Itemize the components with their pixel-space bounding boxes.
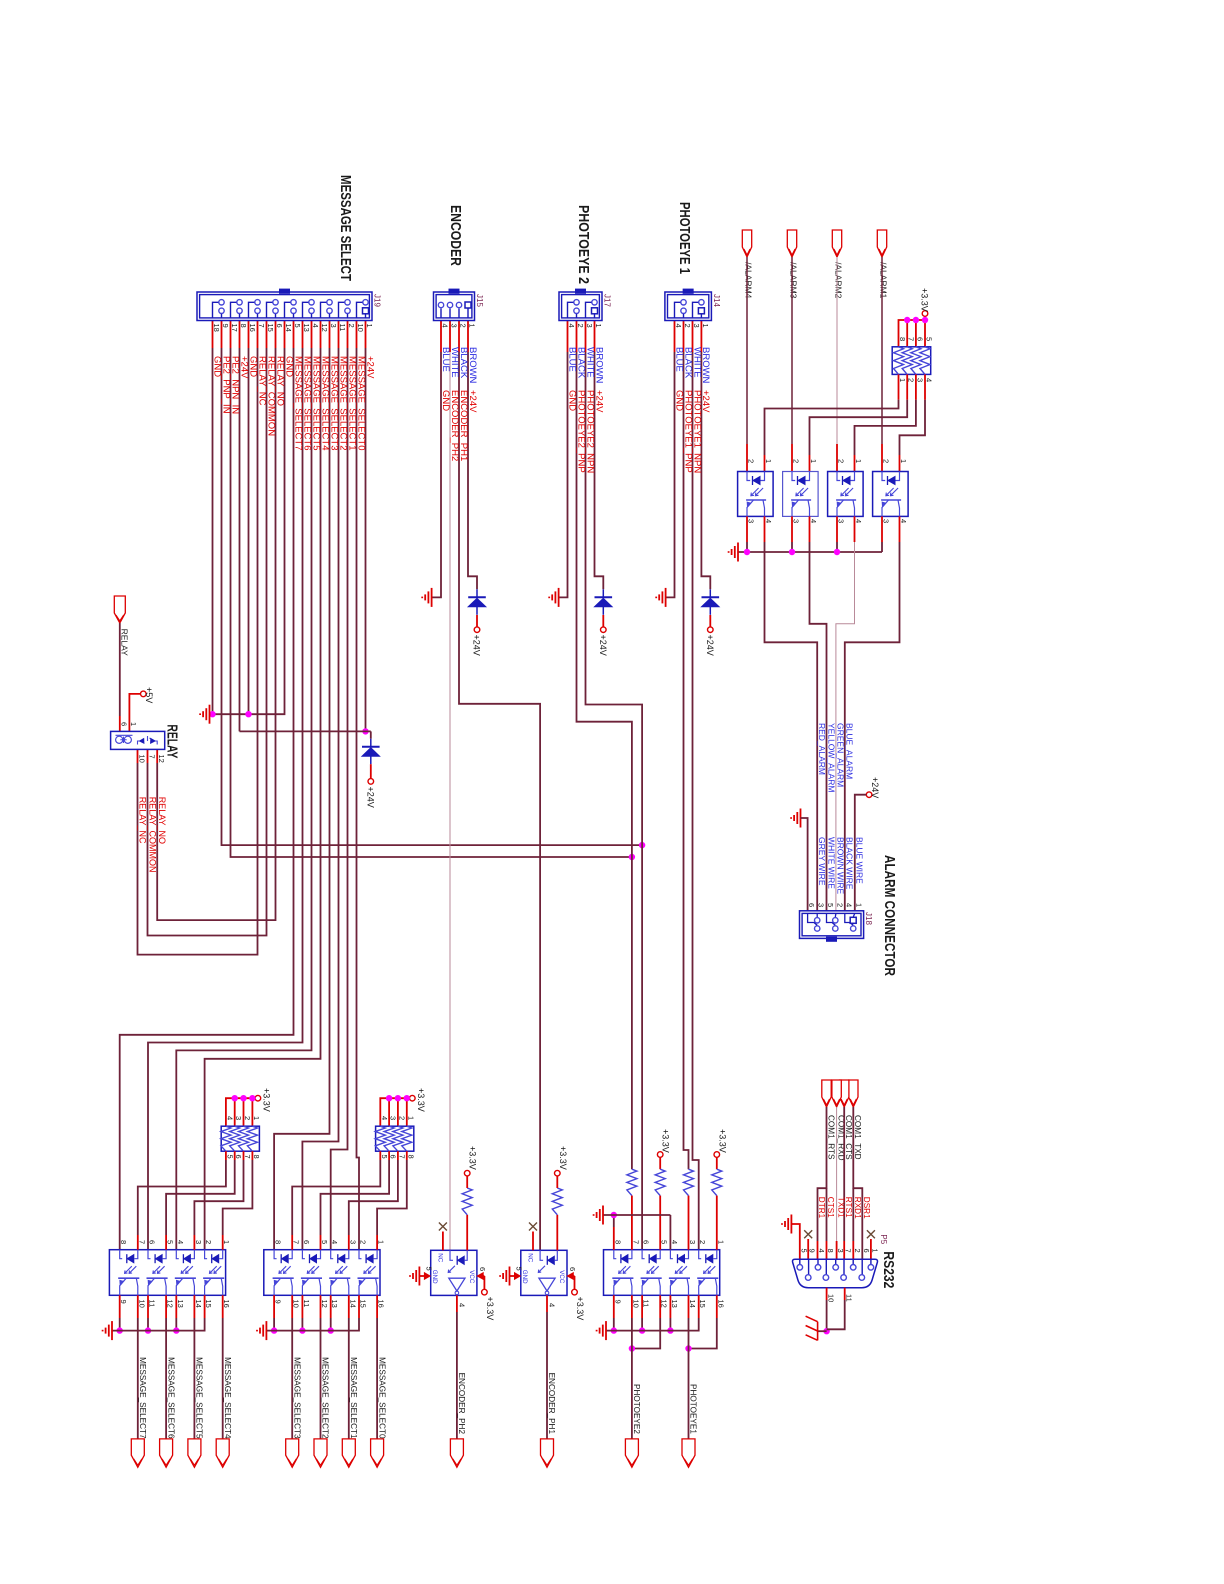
resistor RP_alarm element [902,347,912,375]
wire bank1 gnd stub [175,1295,177,1318]
svg-text:+24V: +24V [366,787,376,808]
flag COM1_RXD [832,1080,841,1107]
junction [249,1095,255,1101]
pin numbers J17 [567,324,603,328]
ground [597,1321,606,1340]
flag MESSAGE_SELECT0 [371,1439,384,1467]
wire MESSAGE_SELECT7 out b [137,1318,139,1439]
svg-text:RS232: RS232 [880,1251,897,1288]
flag PHOTOEYE2 [625,1439,638,1467]
svg-text:RELAY_NO: RELAY_NO [157,797,167,844]
svg-text:10: 10 [826,1294,835,1302]
pin numbers J15 [441,324,477,328]
pin numbers opto alarm 3 [837,459,864,523]
svg-text:15: 15 [266,324,275,332]
pin numbers relay [120,722,167,763]
svg-text:J15: J15 [475,294,484,307]
flag /ALARM4 [742,230,751,257]
svg-text:3: 3 [836,1249,845,1253]
wire +3.3V bus alarm [899,316,926,347]
wire P5 pin11 [844,1288,846,1300]
net labels J15 [440,390,478,461]
wire PHOTOEYE2_NPN [585,321,587,353]
svg-text:+3.3V: +3.3V [558,1146,568,1170]
wire MESSAGE_SELECT3 out b [291,1318,293,1439]
svg-text:BLUE: BLUE [566,347,577,372]
svg-text:2: 2 [853,1249,862,1253]
no-connect X [439,1223,447,1231]
wire MESSAGE_SELECT1 out b [348,1318,350,1439]
power terminal +24V [601,627,607,633]
pin numbers RP2 [380,1116,416,1159]
ground [656,588,665,607]
wire bank1 gnd stub [147,1295,149,1318]
connector J18 ALARM CONNECTOR [800,911,864,939]
ground [594,1206,603,1225]
flag MESSAGE_SELECT7 [131,1439,144,1467]
junction [789,549,795,555]
svg-text:4: 4 [311,324,320,328]
junction [116,1327,122,1333]
wire RELAY_COMMON [266,321,268,349]
power terminal +24V alarm [866,792,872,798]
resistor pack RP2 [376,1126,414,1151]
svg-text:4: 4 [441,324,450,328]
pin numbers bank U_msel_A [119,1240,231,1308]
svg-text:BLUE: BLUE [440,347,451,372]
wire RELAY_NO stub [156,749,158,763]
P5 pad 6 [861,1259,863,1274]
wire +24V J14 pin1 b [701,352,710,589]
ground [782,1215,791,1234]
wire PE2_PNP_IN [221,321,223,349]
wire RED_ALARM [764,516,766,542]
junction [685,1345,691,1351]
wire COM1_TXD w2 [852,1188,854,1241]
wire COM1_RTS w2 [826,1188,828,1241]
junction [639,842,645,848]
wire RP_alarm out [906,374,908,399]
wire +24V to J18 [855,795,867,911]
svg-text:6: 6 [275,324,284,328]
wire GND J17 pin4 [567,321,569,353]
power terminal +3.3V vcc U_enc1 [572,1289,578,1295]
resistor RP1 element [239,1126,249,1151]
wire MESSAGE_SELECT5 b [176,348,311,1250]
wire P5 pin10 b [826,1300,828,1331]
ground [549,588,558,607]
svg-text:P5: P5 [879,1234,888,1244]
wire bank3 pin16 out [716,1295,718,1318]
wire opto4 pin3 stub [881,516,883,542]
wire RP2 out stub [291,1235,293,1250]
flag COM1_TXD [849,1080,858,1107]
wire PHOTOEYE1_NPN [692,321,694,353]
wire U_enc1 pullup lead [556,1176,558,1188]
wire GND J19 pin16 [248,321,250,349]
svg-text:10: 10 [138,755,147,763]
svg-text:GND: GND [440,390,451,411]
svg-text:3: 3 [692,324,701,328]
wire /ALARM1 wire [881,257,883,444]
wire RP1 out stub [222,1235,224,1250]
wire bank3 gnd pin15 [698,1295,700,1318]
svg-text:2: 2 [243,1116,252,1120]
wire MESSAGE_SELECT0 b [357,348,360,1250]
pin numbers J18 [807,903,863,907]
svg-text:COM1_TXD: COM1_TXD [853,1115,862,1160]
chassis ground [806,1316,818,1340]
svg-text:+3.3V: +3.3V [261,1088,271,1112]
wire /ALARM2 wire [836,257,838,444]
J19 pin group 2/11 [345,300,350,305]
svg-text:8: 8 [826,1249,835,1253]
wire RP1 out b [194,1160,243,1235]
P5 pad 2 [852,1259,854,1264]
net labels alarm [817,723,855,792]
J15 pad 2 [456,302,461,307]
pin numbers opto alarm 1 [747,459,774,523]
svg-text:6: 6 [148,1240,157,1244]
net labels J17 [566,390,604,473]
svg-text:PHOTOEYE2: PHOTOEYE2 [632,1384,641,1434]
svg-text:6: 6 [120,722,129,726]
wire +24V rail [240,730,371,732]
svg-text:MESSAGE_SELECT7: MESSAGE_SELECT7 [138,1357,147,1439]
svg-text:6: 6 [478,1267,487,1271]
ground [410,1267,419,1286]
wire RP1 out [251,1151,253,1160]
wire bank3 gnd stub b [641,1318,643,1331]
J19 pin group 1/10 [363,300,368,305]
wire U_enc2 pullup lead [466,1176,468,1188]
resistor R_pe2 series [627,1169,637,1195]
wire P5 pin10 [826,1288,828,1300]
svg-text:COM1_RTS: COM1_RTS [826,1115,835,1160]
wire pullup to bank [659,1196,661,1250]
svg-text:ENCODER_PH1: ENCODER_PH1 [547,1373,556,1435]
wire MESSAGE_SELECT0 out [376,1295,378,1318]
wire pullup lead [659,1157,661,1169]
wire U_enc1 out [546,1295,548,1312]
wire bank3 pin12 b [632,1318,660,1349]
svg-text:MESSAGE_SELECT6: MESSAGE_SELECT6 [166,1357,175,1439]
svg-text:6: 6 [915,337,924,341]
resistor RP2 element [393,1126,403,1151]
junction [922,317,928,323]
svg-text:3: 3 [450,324,459,328]
svg-text:/ALARM2: /ALARM2 [834,262,844,299]
no-connect X [867,1230,875,1238]
wire COM1_CTS stub [843,1241,845,1259]
wire RP_alarm out stub [809,455,811,472]
svg-text:+3.3V: +3.3V [661,1129,671,1153]
wire RP_alarm out b [810,400,908,455]
svg-text:PHOTOEYE 1: PHOTOEYE 1 [676,202,693,274]
P5 pad 7 [843,1259,845,1274]
flag /ALARM3 [787,230,796,257]
svg-text:GREY WIRE: GREY WIRE [817,837,827,886]
svg-text:3: 3 [585,324,594,328]
wire YELLOW_ALARM [809,516,811,542]
svg-text:/ALARM4: /ALARM4 [744,262,754,299]
wire bank3 pin12 out [659,1295,661,1318]
junction [240,1095,246,1101]
wire bank1 gnd stub b [147,1318,149,1331]
svg-text:MESSAGE_SELECT0: MESSAGE_SELECT0 [377,1357,386,1439]
wire GND J19 pin18b [212,348,214,714]
resistor RP1 element [230,1126,240,1151]
J18 pads row 1 [850,917,856,923]
wire RP1 out [234,1151,236,1160]
wire RP_alarm out stub [764,455,766,472]
wire RP2 out stub [348,1235,350,1250]
power terminal +24V [708,627,714,633]
wire bank3 pin4 link [669,1215,671,1250]
svg-text:14: 14 [284,324,293,332]
wire bank3 pin8 stub [613,1227,615,1250]
power terminal +3.3V photo pin1 [714,1152,720,1158]
svg-text:1: 1 [594,324,603,328]
wire bank1 gnd pin15 [204,1295,206,1318]
svg-text:+3.3V: +3.3V [575,1297,585,1321]
wire MESSAGE_SELECT5 [311,321,313,349]
svg-text:2: 2 [882,459,891,463]
svg-text:1: 1 [701,324,710,328]
svg-text:GND: GND [521,1270,528,1284]
svg-text:12: 12 [157,755,166,763]
svg-text:2: 2 [792,459,801,463]
junction [913,317,919,323]
resistor RP2 element [384,1126,394,1151]
wire RP_alarm out stub [899,455,901,472]
wire /ALARM4 stub [746,444,748,472]
wire bank2 gnd stub b [330,1318,332,1331]
svg-text:10: 10 [356,324,365,332]
J19 pin group 6/15 [273,300,278,305]
wire R_pe2 to bank [631,1196,633,1250]
wire PHOTOEYE1_PNP b [684,352,689,1169]
wire +24V J19 pin8 [239,321,241,349]
wire MESSAGE_SELECT1 b [331,348,348,1250]
wire opto2 pin3 b [791,542,793,552]
optocoupler bank U_msel_B [264,1250,380,1296]
resistor R_pe1 series [684,1169,694,1195]
svg-text:2: 2 [397,1116,406,1120]
svg-text:/ALARM3: /ALARM3 [789,262,799,299]
resistor R_pullup U_enc1 [552,1188,562,1215]
svg-text:1: 1 [468,324,477,328]
svg-text:5: 5 [293,324,302,328]
resistor RP1 element [247,1126,257,1151]
svg-text:MESSAGE_SELECT4: MESSAGE_SELECT4 [223,1357,232,1439]
svg-text:3: 3 [329,324,338,328]
svg-text:GND: GND [566,390,577,411]
wire RELAY_NO [275,321,277,349]
J19 pin group 4/13 [309,300,314,305]
svg-text:4: 4 [176,1240,185,1244]
svg-text:8: 8 [239,324,248,328]
pin numbers opto alarm 2 [792,459,819,523]
wire GND J14 pin4 [674,321,676,353]
flag MESSAGE_SELECT2 [314,1439,327,1467]
svg-text:+3.3V: +3.3V [485,1297,495,1321]
wire MESSAGE_SELECT3 out [291,1295,293,1318]
wire /ALARM3 wire [791,257,793,444]
junction [823,1328,829,1334]
wire +24V J19 pin8 rail [239,348,241,731]
wire MESSAGE_SELECT3 b [274,348,329,1250]
wire MESSAGE_SELECT4 b [205,348,321,1250]
power terminal +3.3V U_enc2 [464,1170,470,1176]
optocoupler U_alarm4 [873,472,909,517]
junction [629,1345,635,1351]
wire PHOTOEYE2_PNP [576,321,578,353]
wire GND to J18 [801,818,808,911]
wire RP1 out b [138,1160,226,1235]
svg-text:1: 1 [365,324,374,328]
wire COM1_TXD w2 stub [852,1241,854,1259]
J18 pads row 2 [833,918,838,923]
wire RELAY_NC [257,321,259,349]
wire RP2 out [379,1151,381,1160]
svg-text:1: 1 [899,459,908,463]
flag COM1_CTS [840,1080,849,1107]
svg-text:+24V: +24V [472,635,482,656]
wire bank3 in gnd rail [603,1214,670,1216]
P5 pad 9 [808,1259,810,1274]
svg-text:6: 6 [568,1267,577,1271]
wire BLUE_ALARM b [845,542,900,911]
flag MESSAGE_SELECT3 [286,1439,299,1467]
wire RELAY_NO b [157,348,275,920]
wire PHOTOEYE2 out [631,1318,633,1439]
wire MESSAGE_SELECT2 out b [320,1318,322,1439]
wire +3.3V stub RP1 [243,1098,245,1126]
wire MESSAGE_SELECT7 out [137,1295,139,1318]
svg-text:2: 2 [359,1240,368,1244]
wire +3.3V stub RP1 [234,1098,236,1126]
wire bank2 gnd stub [330,1295,332,1318]
wire MESSAGE_SELECT2 b [302,348,338,1250]
junction [904,317,910,323]
wire COM1_CTS w [843,1107,845,1241]
P5 pad 3 [835,1259,837,1264]
wire RP2 out [406,1151,408,1160]
svg-text:5: 5 [799,1249,808,1253]
wire GND J19 pin18 [212,321,214,349]
wire +3.3V stub rp6 [915,320,917,347]
wire RED_ALARM b [765,542,818,911]
svg-text:J17: J17 [603,294,612,307]
pin numbers P5 [799,1249,879,1253]
junction [245,711,251,717]
wire bank3 gnd rail [606,1318,699,1331]
svg-text:TXD1: TXD1 [836,1197,845,1218]
svg-text:8: 8 [898,337,907,341]
wire P5 pin5 gnd [791,1224,799,1259]
svg-text:NC: NC [436,1253,443,1262]
pin numbers J19 [212,324,374,332]
junction [386,1095,392,1101]
wire RP_alarm out b [765,400,899,455]
flag PHOTOEYE1 [682,1439,695,1467]
wire RP2 out [397,1151,399,1160]
wire ENCODER_PH2 [449,321,451,353]
svg-text:6: 6 [642,1240,651,1244]
junction [611,1327,617,1333]
ground [791,809,800,828]
svg-text:+24V: +24V [870,777,880,798]
wire ENCODER_PH1 b [459,352,540,1250]
svg-text:5: 5 [515,1267,524,1271]
svg-text:ALARM CONNECTOR: ALARM CONNECTOR [881,855,898,976]
wire COM1_RXD stub [836,1241,838,1259]
J18 pads row 3 [815,918,820,923]
wire RP1 out [225,1151,227,1160]
wire bank1 gnd rail [112,1318,205,1331]
svg-text:DTR1: DTR1 [817,1197,826,1219]
power terminal +3.3V RP2 [410,1095,416,1101]
wire chassis link [818,1330,827,1332]
wire +5V to relay pin1 [129,694,140,732]
connector J15 ENCODER [434,292,475,321]
wire bank3 gnd stub [669,1295,671,1318]
wire +3.3V stub RP2 [406,1098,408,1126]
power terminal +3.3V photo pin5 [657,1152,663,1158]
wire +24V J17 pin1 b [595,352,604,589]
svg-text:6: 6 [302,1240,311,1244]
connector J17 PHOTOEYE2 [559,292,602,321]
svg-text:VCC: VCC [468,1270,475,1284]
flag ENCODER_PH2 [450,1439,463,1467]
P5 pad 8 [825,1259,827,1274]
junction [744,549,750,555]
svg-text:1: 1 [764,459,773,463]
no-connect X [529,1223,537,1231]
ground [257,1321,266,1340]
pin numbers P5 shield [826,1294,853,1302]
svg-text:BLUE: BLUE [673,347,684,372]
svg-text:7: 7 [907,337,916,341]
junction [232,1095,238,1101]
resistor RP_alarm element [920,347,930,375]
connector P5 RS232 DB9 [793,1259,878,1287]
optocoupler U_enc1 [521,1250,567,1295]
svg-text:MESSAGE_SELECT5: MESSAGE_SELECT5 [195,1357,204,1439]
svg-text:2: 2 [459,324,468,328]
wire PE2_NPN_IN [230,321,232,349]
pin numbers bank U_photo [613,1240,725,1308]
wire +24V J17 pin1 [594,321,596,353]
svg-text:NC: NC [527,1253,534,1262]
wire bank3 gnd stub b [669,1318,671,1331]
wire U_enc1 pin3 stub [532,1232,534,1251]
resistor R_pullup photo pin5 [655,1169,665,1195]
wire RP_alarm out b [855,400,916,455]
flag ENCODER_PH1 [541,1439,554,1467]
svg-text:J14: J14 [712,294,721,307]
wire opto1 pin3 b [746,542,748,552]
wire RELAY_NC b [138,348,258,955]
svg-text:RED_ALARM: RED_ALARM [817,723,827,775]
diode D_message +24V clamp [362,746,380,748]
wire +24V J19 pin1 rail [365,348,367,731]
svg-text:16: 16 [248,324,257,332]
svg-text:PHOTOEYE1: PHOTOEYE1 [689,1384,698,1434]
junction [834,549,840,555]
svg-text:J18: J18 [864,912,873,925]
